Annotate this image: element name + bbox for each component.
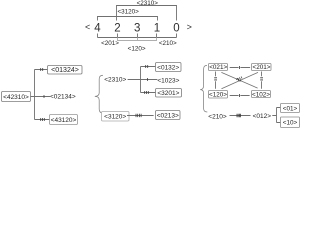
edge ticks: 3 on bottom edge <box>145 91 149 94</box>
svg-text:2: 2 <box>114 22 120 34</box>
svg-text:<120>: <120> <box>128 46 146 53</box>
svg-text:0: 0 <box>173 22 179 34</box>
edge tick: 1 on middle edge <box>43 95 45 98</box>
box <01> <box>281 104 300 113</box>
box <201> <box>252 64 272 71</box>
edge ticks: 2 on top edge <box>146 65 148 68</box>
big brace 2 <box>95 75 103 113</box>
svg-text:1: 1 <box>154 22 160 34</box>
svg-text:>: > <box>187 22 192 32</box>
svg-text:<210>: <210> <box>159 40 177 47</box>
horizontal edge <021>-<201> with 1 tick <box>230 67 250 69</box>
svg-text:<102>: <102> <box>252 91 270 98</box>
vertical edge <021>-<120> with 2 ticks <box>215 72 217 89</box>
svg-text:<3120>: <3120> <box>118 9 140 16</box>
tree trunk group1 <box>31 70 51 120</box>
svg-text:<0132>: <0132> <box>157 64 179 71</box>
edge ticks: 4 <box>136 114 141 117</box>
box <120> <box>209 91 228 99</box>
svg-text:<02134>: <02134> <box>50 94 76 101</box>
svg-text:<201>: <201> <box>253 64 271 71</box>
svg-text:<3120>: <3120> <box>104 114 126 121</box>
svg-text:<120>: <120> <box>209 92 227 99</box>
bracket <2310> top <box>117 6 177 21</box>
box <102> <box>252 91 271 98</box>
vertical edge <201>-<102> with 2 ticks <box>261 72 263 89</box>
diagonal edge <201>-<120> <box>222 72 259 88</box>
edge ticks: 3 on bottom edge <box>41 118 45 121</box>
box <01324> <box>48 66 83 75</box>
edge <210>-<012> with 4 ticks <box>230 115 251 117</box>
box <42310> <box>2 92 31 102</box>
edge <3120> to <0213> <box>127 115 154 117</box>
svg-text:<10>: <10> <box>283 120 298 127</box>
svg-text:<43120>: <43120> <box>51 117 77 124</box>
box <0132> <box>156 63 182 72</box>
box <3201> <box>156 89 182 98</box>
svg-text:<01324>: <01324> <box>51 67 79 74</box>
svg-text:<1023>: <1023> <box>157 77 179 84</box>
bottom comb line for <201> and <210> <box>98 37 177 39</box>
box <021> <box>209 64 228 71</box>
box <0213> <box>156 111 181 120</box>
tree trunk group2 <box>128 67 158 93</box>
horizontal edge <120>-<102> with 1 tick <box>230 95 250 97</box>
svg-text:<2310>: <2310> <box>137 0 159 7</box>
svg-text:<201>: <201> <box>101 40 119 47</box>
edge tick: 1 on middle edge <box>146 78 148 81</box>
lower bracket <120> (light) <box>118 38 157 41</box>
svg-text:<210>: <210> <box>208 113 227 120</box>
svg-text:4: 4 <box>94 22 101 34</box>
svg-text:<0213>: <0213> <box>157 113 179 120</box>
bracket <3120> <box>98 17 158 21</box>
svg-text:3: 3 <box>134 22 140 34</box>
box <10> <box>281 117 300 128</box>
svg-text:<01>: <01> <box>283 105 298 112</box>
big brace 3 <box>200 65 207 112</box>
svg-text:<021>: <021> <box>209 64 227 71</box>
svg-text:<42310>: <42310> <box>3 94 29 101</box>
svg-text:<: < <box>85 22 90 32</box>
small bracket to <01> <10> <box>272 108 281 123</box>
svg-text:<012>: <012> <box>253 113 272 120</box>
box <43120> <box>50 115 78 125</box>
svg-text:<3201>: <3201> <box>157 90 179 97</box>
diagonal tick cluster <box>236 78 240 82</box>
svg-text:<2310>: <2310> <box>104 77 126 84</box>
edge ticks: 2 on top edge <box>41 68 43 71</box>
diagonal edge <021>-<102> <box>221 72 257 88</box>
box <3120> (light) <box>102 112 130 122</box>
